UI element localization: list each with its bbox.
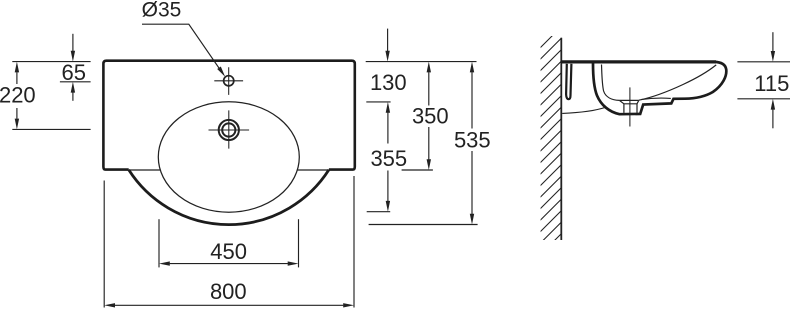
dimension 65 lower arrow [72,92,74,100]
extension line basin bottom level [367,211,391,213]
extension line basin top level [366,101,390,103]
dimension 115 lower arrow [772,109,774,128]
svg-text:355: 355 [370,146,407,171]
side view mounting channel [566,64,571,99]
svg-text:535: 535 [454,127,491,152]
faucet hole circle [224,76,234,86]
leader line for diameter label [142,24,222,71]
extension line rim top right [737,61,790,63]
dimension 535 lower arrow [471,151,473,214]
drain outer circle [219,120,239,140]
svg-text:450: 450 [210,239,247,264]
side view outer profile [593,62,726,114]
dimension 535 upper arrow [471,72,473,128]
svg-text:65: 65 [62,60,86,85]
dimension 350 upper arrow [428,72,430,105]
svg-text:Ø35: Ø35 [142,0,182,21]
svg-text:115: 115 [754,71,789,96]
side view inner back line [602,65,620,101]
side view drain centerline [629,87,631,126]
inner basin ellipse [158,102,299,212]
extension line drain level left [12,128,90,130]
svg-text:220: 220 [0,82,36,107]
drain crosshair [209,110,250,148]
leader arrowhead [217,67,225,77]
extension line faucet level left [60,81,91,83]
hidden bottom edge line left [129,169,161,171]
wall line [560,38,562,240]
extension line outer right bottom [353,176,355,308]
dimension 220 upper arrow [16,72,18,84]
dimension 65 upper arrow [72,34,74,51]
extension line basin right bottom [298,219,300,267]
extension line outer left bottom [103,181,105,308]
extension line top level left [12,61,90,63]
faucet hole crosshair [214,67,243,95]
dimension 130 top arrow [387,29,389,51]
hidden bottom edge line right [297,169,329,171]
side view rim bar [561,60,716,63]
dimension 355 upper arrow [387,113,389,144]
extension line body bottom level [402,169,433,171]
basin front view outline [103,61,354,170]
svg-text:130: 130 [370,70,407,95]
extension line basin left bottom [158,219,160,267]
side view inner bowl line [639,65,716,100]
extension line apron bottom level [369,224,478,226]
drain inner circle [222,123,235,136]
dimension 220 lower arrow [16,108,18,119]
dimension 115 upper arrow [772,32,774,51]
wall hatching [536,22,566,271]
side view under-wall line [562,108,604,114]
dimension line 450 [170,263,288,265]
dimension line 800 [115,304,344,306]
extension line apron bottom right [737,98,790,100]
side view drain funnel [619,100,638,113]
basin front apron arc [129,170,329,225]
dimension 350 lower arrow [428,127,430,160]
svg-text:800: 800 [210,279,247,304]
side view inner ledge line [641,98,671,100]
extension line top level right [366,61,477,63]
dimension 355 lower arrow [387,171,389,202]
svg-text:350: 350 [412,104,449,129]
